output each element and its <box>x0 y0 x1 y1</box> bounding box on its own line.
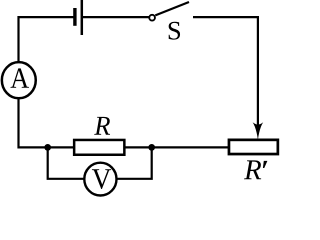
wire: voltmeter branch right <box>116 149 152 179</box>
wire: ammeter to bottom-left corner <box>19 98 49 148</box>
ammeter A: letter <box>11 68 29 87</box>
wire: resistor R to right junction <box>125 146 152 148</box>
junction dot (right) <box>148 144 155 151</box>
switch S: lever <box>155 2 189 15</box>
wire: right junction to rheostat left lead <box>152 146 229 148</box>
resistor R box <box>74 140 124 155</box>
rheostat R' box <box>229 140 278 154</box>
voltmeter V: circle <box>84 163 116 196</box>
ammeter A: circle <box>2 62 36 98</box>
label S <box>169 22 180 40</box>
voltmeter V: letter <box>92 169 111 189</box>
label R <box>94 117 110 135</box>
switch S: pivot circle <box>149 15 155 21</box>
wire: top-left corner (battery to ammeter) <box>19 17 74 62</box>
battery: long thin plate <box>81 0 84 35</box>
wire: switch to top-right corner and down right side <box>193 17 258 127</box>
wire: voltmeter branch left <box>48 149 85 179</box>
label R' <box>244 160 267 179</box>
arrow: rheostat wiper arrowhead <box>253 122 264 140</box>
wire: left junction to resistor R <box>48 146 76 148</box>
wire: battery to switch <box>83 16 150 18</box>
junction dot (left) <box>44 144 51 151</box>
battery: short thick plate <box>73 8 76 26</box>
